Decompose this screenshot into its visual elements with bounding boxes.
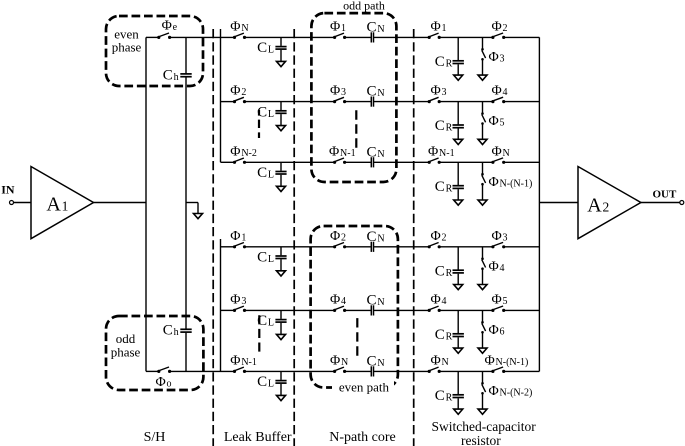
svg-text:N-path core: N-path core — [329, 430, 395, 445]
svg-text:Leak Buffer: Leak Buffer — [224, 430, 292, 445]
svg-text:odd path: odd path — [343, 0, 385, 13]
svg-text:even path: even path — [339, 380, 390, 395]
svg-text:phase: phase — [112, 40, 142, 55]
svg-text:OUT: OUT — [653, 188, 678, 200]
svg-text:resistor: resistor — [461, 433, 501, 446]
svg-text:phase: phase — [111, 345, 141, 360]
svg-text:S/H: S/H — [144, 430, 166, 445]
svg-text:Switched-capacitor: Switched-capacitor — [431, 419, 536, 434]
svg-text:IN: IN — [1, 182, 15, 196]
